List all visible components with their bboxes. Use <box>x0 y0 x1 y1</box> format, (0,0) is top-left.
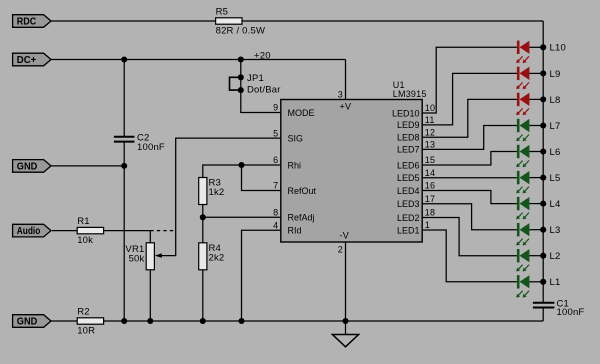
wire LED9 pin to L9 <box>422 73 517 125</box>
LED L9 <box>516 67 560 90</box>
wire R5 to LED bus <box>242 20 543 22</box>
svg-text:RDC: RDC <box>17 17 37 28</box>
svg-text:16: 16 <box>425 181 435 191</box>
svg-text:50k: 50k <box>129 254 145 265</box>
junction pin2/ground rail <box>342 318 348 324</box>
wire C1 to ground rail <box>542 308 544 321</box>
jumper JP1 <box>230 73 281 96</box>
svg-text:RId: RId <box>288 226 302 236</box>
LED L8 <box>516 93 560 116</box>
IC U1 LM3915 <box>273 80 435 255</box>
connector DC+ <box>13 53 51 66</box>
svg-text:+20: +20 <box>254 51 271 62</box>
svg-text:6: 6 <box>273 155 278 165</box>
svg-text:LM3915: LM3915 <box>393 89 427 99</box>
svg-text:82R / 0.5W: 82R / 0.5W <box>216 26 266 37</box>
svg-text:L9: L9 <box>550 69 561 80</box>
svg-text:-V: -V <box>340 230 350 240</box>
svg-text:LED4: LED4 <box>397 186 420 196</box>
svg-text:LED9: LED9 <box>397 120 420 130</box>
wire RefOut pin 7 branch <box>242 165 281 191</box>
svg-text:11: 11 <box>425 115 435 125</box>
svg-text:Dot/Bar: Dot/Bar <box>247 85 281 96</box>
svg-text:7: 7 <box>273 181 278 191</box>
wire R3 to RefAdj node <box>202 205 204 218</box>
svg-text:1k2: 1k2 <box>209 187 225 198</box>
svg-text:Audio: Audio <box>17 226 41 237</box>
LED L2 <box>516 249 560 272</box>
LED L5 <box>516 171 560 194</box>
svg-text:RefOut: RefOut <box>288 186 317 196</box>
wire LED5 pin to L5 <box>422 177 517 179</box>
wire Audio to R1 <box>52 230 77 232</box>
LED L10 <box>516 41 566 64</box>
potentiometer VR1 <box>125 243 166 270</box>
svg-text:2k2: 2k2 <box>209 253 225 264</box>
LED L7 <box>516 119 560 142</box>
LED L4 <box>516 197 560 220</box>
wire LED2 pin to L2 <box>422 218 517 256</box>
svg-text:L5: L5 <box>550 173 561 184</box>
connector RDC <box>13 15 51 28</box>
wire LED10 pin to L10 <box>422 47 517 113</box>
wire RefAdj pin 8 <box>203 216 281 218</box>
LED L3 <box>516 223 560 246</box>
svg-text:5: 5 <box>273 128 278 138</box>
wire VR1 wiper link (dashed) <box>150 230 175 232</box>
svg-text:DC+: DC+ <box>17 55 37 66</box>
wire RId pin 4 to ground rail <box>242 230 281 321</box>
resistor R1 <box>77 216 103 246</box>
wire R1 to VR1 <box>104 230 151 232</box>
svg-text:LED8: LED8 <box>397 133 420 143</box>
svg-text:L2: L2 <box>550 251 561 262</box>
svg-text:JP1: JP1 <box>247 73 264 84</box>
svg-text:1: 1 <box>425 220 430 230</box>
svg-text:10: 10 <box>425 103 435 113</box>
svg-text:15: 15 <box>425 155 435 165</box>
capacitor C1 <box>533 299 585 319</box>
svg-text:L10: L10 <box>550 43 566 54</box>
svg-text:R1: R1 <box>77 216 90 227</box>
LED L1 <box>516 275 560 298</box>
wire -V pin 2 to ground <box>345 242 347 335</box>
junction DC+/JP1 <box>238 56 244 62</box>
junction R4/ground rail <box>200 318 206 324</box>
capacitor C2 <box>114 133 165 154</box>
wire LED3 pin to L3 <box>422 204 517 230</box>
wire LED1 pin to L1 <box>422 230 517 282</box>
junction DC+/C2 <box>121 56 127 62</box>
resistor R3 <box>199 178 225 205</box>
wire RefAdj node to R4 <box>202 217 204 243</box>
svg-text:Rhi: Rhi <box>288 160 302 170</box>
svg-text:LED5: LED5 <box>397 173 420 183</box>
wire VR1 top lead <box>149 231 151 243</box>
svg-text:GND: GND <box>17 162 38 173</box>
wire JP1 branch to MODE pin 9 <box>241 60 281 113</box>
svg-text:13: 13 <box>425 140 435 150</box>
svg-text:9: 9 <box>273 103 278 113</box>
wire LED anode bus <box>542 21 544 302</box>
svg-text:12: 12 <box>425 127 435 137</box>
resistor R5 <box>216 6 266 36</box>
junction RId/ground rail <box>238 318 244 324</box>
svg-text:L4: L4 <box>550 199 561 210</box>
svg-text:L3: L3 <box>550 225 561 236</box>
svg-text:8: 8 <box>273 208 278 218</box>
wire Rhi pin 6 <box>203 165 281 178</box>
svg-text:LED6: LED6 <box>397 160 420 170</box>
svg-text:10R: 10R <box>77 326 95 337</box>
junction Rhi/RefOut <box>238 162 244 168</box>
svg-text:MODE: MODE <box>288 108 315 118</box>
wire DC+ rail <box>51 59 346 61</box>
svg-text:2: 2 <box>338 245 343 255</box>
wire wiper to SIG pin 5 <box>166 138 281 256</box>
svg-text:100nF: 100nF <box>557 307 585 318</box>
junction GND/C2 net <box>121 163 127 169</box>
svg-text:RefAdj: RefAdj <box>288 213 315 223</box>
wire C2 to ground rail <box>123 142 125 321</box>
wire RDC to R5 <box>51 20 216 22</box>
svg-text:L6: L6 <box>550 147 561 158</box>
node +20 <box>254 51 271 62</box>
wire VR1 bottom lead <box>149 270 151 321</box>
svg-text:L1: L1 <box>550 277 561 288</box>
resistor R4 <box>199 243 225 270</box>
junction RefAdj node <box>200 214 206 220</box>
svg-text:10k: 10k <box>77 235 93 246</box>
svg-text:R2: R2 <box>77 306 90 317</box>
wire GND to R2 <box>51 320 77 322</box>
wire +V pin 3 drop <box>345 60 347 100</box>
svg-text:R5: R5 <box>216 6 229 17</box>
svg-text:GND: GND <box>17 317 38 328</box>
connector Audio <box>13 224 51 237</box>
wire DC+ to C2 <box>123 60 125 137</box>
svg-text:L7: L7 <box>550 121 561 132</box>
wire GND to C2 net <box>51 165 124 167</box>
wire LED4 pin to L4 <box>422 191 517 204</box>
connector GND upper <box>13 160 51 173</box>
wire bus to C1 <box>542 301 544 303</box>
wire ground rail <box>104 320 544 322</box>
svg-text:LED10: LED10 <box>392 108 420 118</box>
wire LED8 pin to L8 <box>422 99 517 137</box>
resistor R2 <box>77 306 103 336</box>
svg-text:+V: +V <box>340 101 352 111</box>
svg-text:18: 18 <box>425 208 435 218</box>
svg-text:LED1: LED1 <box>397 225 420 235</box>
svg-text:SIG: SIG <box>288 133 304 143</box>
wire LED6 pin to L6 <box>422 152 517 166</box>
svg-text:14: 14 <box>425 168 435 178</box>
connector GND lower <box>13 315 51 328</box>
svg-text:LED3: LED3 <box>397 199 420 209</box>
ground symbol <box>332 335 358 347</box>
wire R4 to ground rail <box>202 270 204 321</box>
svg-text:17: 17 <box>425 194 435 204</box>
junction VR1/ground rail <box>147 318 153 324</box>
svg-text:3: 3 <box>338 90 343 100</box>
svg-text:100nF: 100nF <box>137 142 165 153</box>
wire LED7 pin to L7 <box>422 126 517 150</box>
svg-text:LED7: LED7 <box>397 145 420 155</box>
svg-text:L8: L8 <box>550 95 561 106</box>
svg-text:LED2: LED2 <box>397 213 420 223</box>
svg-text:4: 4 <box>273 221 278 231</box>
junction C2 net/ground rail <box>121 318 127 324</box>
LED L6 <box>516 145 560 168</box>
